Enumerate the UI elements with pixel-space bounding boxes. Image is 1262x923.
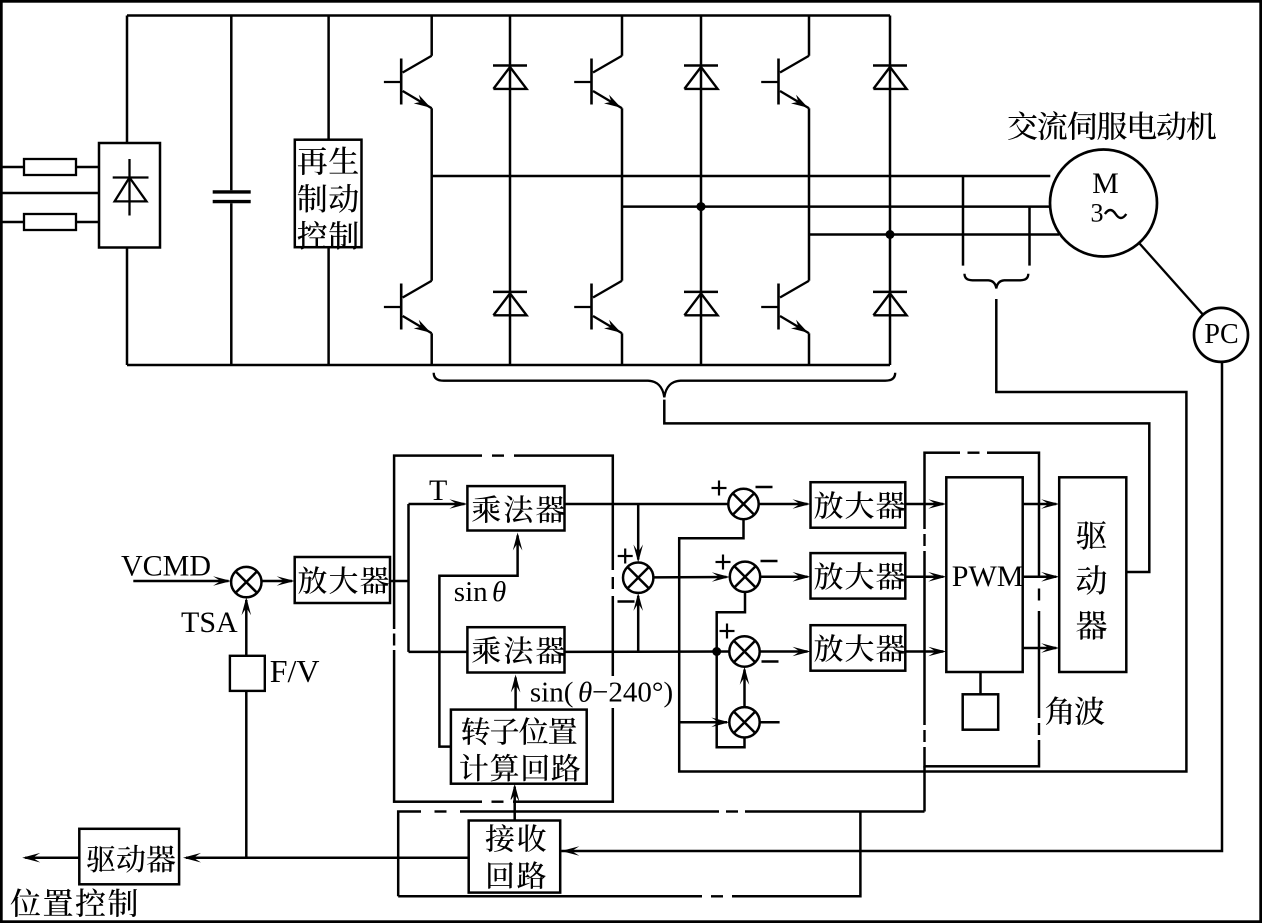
svg-text:θ: θ <box>492 576 506 608</box>
svg-text:TSA: TSA <box>181 606 238 639</box>
svg-text:F/V: F/V <box>270 653 320 689</box>
svg-text:VCMD: VCMD <box>121 549 211 582</box>
svg-text:θ: θ <box>578 677 592 709</box>
svg-text:−240°): −240°) <box>592 677 673 709</box>
svg-text:3: 3 <box>1091 199 1104 228</box>
svg-text:sin: sin <box>454 576 488 608</box>
svg-text:M: M <box>1092 167 1119 200</box>
svg-text:sin(: sin( <box>530 677 574 709</box>
svg-text:T: T <box>429 474 447 507</box>
svg-text:PC: PC <box>1204 319 1238 350</box>
svg-text:PWM: PWM <box>952 560 1024 593</box>
